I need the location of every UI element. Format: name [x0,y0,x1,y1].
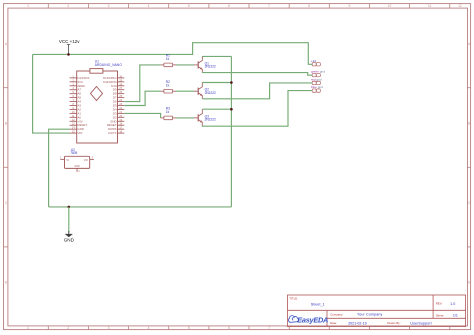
U1 left pin numbers [72,75,75,133]
wire Q1 collector to ground riser [202,55,231,57]
wire Q1 emitter to green channel pin [202,73,312,76]
svg-text:Sheet_1: Sheet_1 [311,303,325,307]
wire +12v rail to U1 VIN [33,54,70,133]
svg-text:UserSupport: UserSupport [410,321,431,325]
wire R2 to Q2 base [176,90,194,92]
svg-text:12: 12 [458,4,462,8]
svg-text:7: 7 [268,4,270,8]
U1 left pin stubs [70,78,77,133]
svg-text:9: 9 [348,4,350,8]
svg-text:5: 5 [188,326,190,330]
svg-text:blue gnd: blue gnd [311,85,323,89]
svg-text:11: 11 [428,4,432,8]
transistor Q1 2N2222 [194,56,203,72]
svg-text:Drawn By:: Drawn By: [387,321,401,325]
resistor R3 [161,116,176,120]
junction Q2 collector on ground riser [230,81,233,84]
svg-text:green gnd: green gnd [311,69,325,73]
svg-text:Sheet:: Sheet: [436,313,445,317]
svg-text:2N2222: 2N2222 [205,91,216,95]
svg-text:2021-02-19: 2021-02-19 [348,321,366,325]
wire U1 GND pin to ground rail [49,129,70,207]
connector pin +12 [312,63,320,66]
svg-text:REV:: REV: [436,302,443,306]
svg-text:6: 6 [228,4,230,8]
svg-text:1/1: 1/1 [453,314,458,318]
svg-text:1: 1 [27,326,29,330]
ground symbol GND [64,207,75,242]
wire U1 D3 to R3 [124,113,160,118]
transistor Q2 2N2222 [194,83,203,99]
connector pin red gnd [312,81,320,84]
svg-text:4: 4 [148,4,150,8]
resistor R2 [161,89,176,93]
svg-text:VI: VI [66,158,69,162]
U1 usb connector box [90,69,103,74]
svg-text:2N2222: 2N2222 [205,118,216,122]
svg-text:VO: VO [84,158,89,162]
svg-text:7: 7 [268,326,270,330]
svg-text:8: 8 [308,4,310,8]
wire Q2 collector to ground riser [202,82,231,84]
svg-text:VIN: VIN [78,131,83,135]
IC U1 ARDUINO_NANO body [77,71,118,143]
wire R3 to Q3 base [176,117,194,119]
svg-text:7805: 7805 [70,151,77,155]
svg-text:ARDUINO_NANO: ARDUINO_NANO [95,63,123,67]
junction ground symbol on ground rail [68,206,71,209]
resistor R1 [161,63,176,67]
U1 orientation diamond [91,87,103,101]
svg-text:Company:: Company: [330,312,343,316]
svg-text:6: 6 [228,326,230,330]
connector pin green gnd [312,74,320,77]
svg-text:GND: GND [74,165,80,168]
svg-text:TITLE:: TITLE: [289,296,298,300]
svg-text:1.0: 1.0 [450,302,455,306]
power flag VCC +12v [59,39,80,54]
wire ground rail riser to transistor collectors [230,56,232,207]
wire ground rail bottom [49,206,232,208]
wire Q3 collector to ground riser [202,108,231,110]
svg-text:10: 10 [388,4,392,8]
U1 right pin names [103,76,117,135]
U1 right pin numbers [119,75,122,133]
svg-text:1k: 1k [166,83,170,87]
svg-text:3: 3 [108,4,110,8]
wire +12v rail to connector pin 1 [33,43,313,65]
transistor Q3 2N2222 [194,109,203,125]
svg-text:Your Company: Your Company [357,313,382,317]
junction VCC stub on +12v rail [67,53,70,56]
svg-text:3: 3 [108,326,110,330]
svg-text:1: 1 [27,4,29,8]
wire Q3 emitter to blue channel pin [202,91,312,127]
connector pin blue gnd [312,89,320,92]
svg-text:4: 4 [148,326,150,330]
wire Q2 emitter to red channel pin [202,83,312,99]
U1 left pin names [78,76,90,135]
svg-text:1k: 1k [166,57,170,61]
wire U1 D5 to R2 [124,91,160,105]
voltage regulator U2 7805 [60,156,94,172]
svg-text:5: 5 [188,4,190,8]
U1 right pin stubs [118,78,125,133]
svg-text:Date:: Date: [330,321,337,325]
svg-text:D1/TX: D1/TX [108,131,116,135]
wire U1 D6 to R1 [124,65,160,102]
svg-text:EasyEDA: EasyEDA [297,316,328,325]
wire R1 to Q1 base [176,64,194,66]
junction Q3 collector on ground riser [230,108,233,111]
svg-text:red gnd: red gnd [311,77,322,81]
svg-text:2: 2 [67,326,69,330]
svg-text:1k: 1k [166,110,170,114]
svg-text:GND: GND [64,237,75,242]
svg-text:2N2222: 2N2222 [205,65,216,69]
svg-text:VCC +12v: VCC +12v [59,39,80,44]
svg-text:+12: +12 [311,59,317,63]
svg-text:2: 2 [67,4,69,8]
